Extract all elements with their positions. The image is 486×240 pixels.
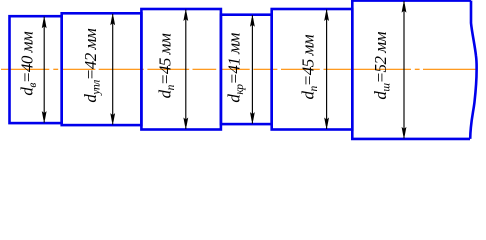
dimension line 4 with arrows (250, 15, 255, 123)
dimension line 2 with arrows (110, 14, 115, 125)
svg-text:dв=40 мм: dв=40 мм (18, 31, 40, 96)
shaft section 5 (d_p = 45 mm) (272, 9, 353, 130)
dimension line 6 with arrows (402, 1, 407, 138)
svg-text:dш=52 мм: dш=52 мм (371, 31, 393, 99)
shaft section 6 (d_sh = 52 mm, broken-off view) (352, 1, 476, 139)
dimension line 5 with arrows (324, 10, 329, 130)
svg-text:dп=45 мм: dп=45 мм (299, 34, 321, 99)
dimension label 6: d_sh = 52 mm (371, 31, 393, 99)
dimension label 2: d_upl = 42 mm (81, 28, 103, 102)
shaft section 1 (d_v = 40 mm) (10, 16, 62, 123)
svg-text:dупл=42 мм: dупл=42 мм (81, 28, 103, 102)
dimension line 3 with arrows (183, 10, 188, 130)
dimension label 5: d_p = 45 mm (299, 34, 321, 99)
svg-text:dп=45 мм: dп=45 мм (156, 33, 178, 98)
dimension label 3: d_p = 45 mm (156, 33, 178, 98)
dimension line 1 with arrows (42, 17, 47, 123)
centerline (shaft axis, orange dash-dot) (1, 68, 477, 70)
dimension label 4: d_kr = 41 mm (225, 32, 247, 102)
shaft section 4 (d_kr = 41 mm) (221, 15, 272, 124)
shaft section 2 (d_upl = 42 mm) (62, 13, 142, 125)
svg-text:dкр=41 мм: dкр=41 мм (225, 32, 247, 102)
dimension label 1: d_v = 40 mm (18, 31, 40, 96)
shaft section 3 (d_p = 45 mm) (141, 9, 221, 130)
